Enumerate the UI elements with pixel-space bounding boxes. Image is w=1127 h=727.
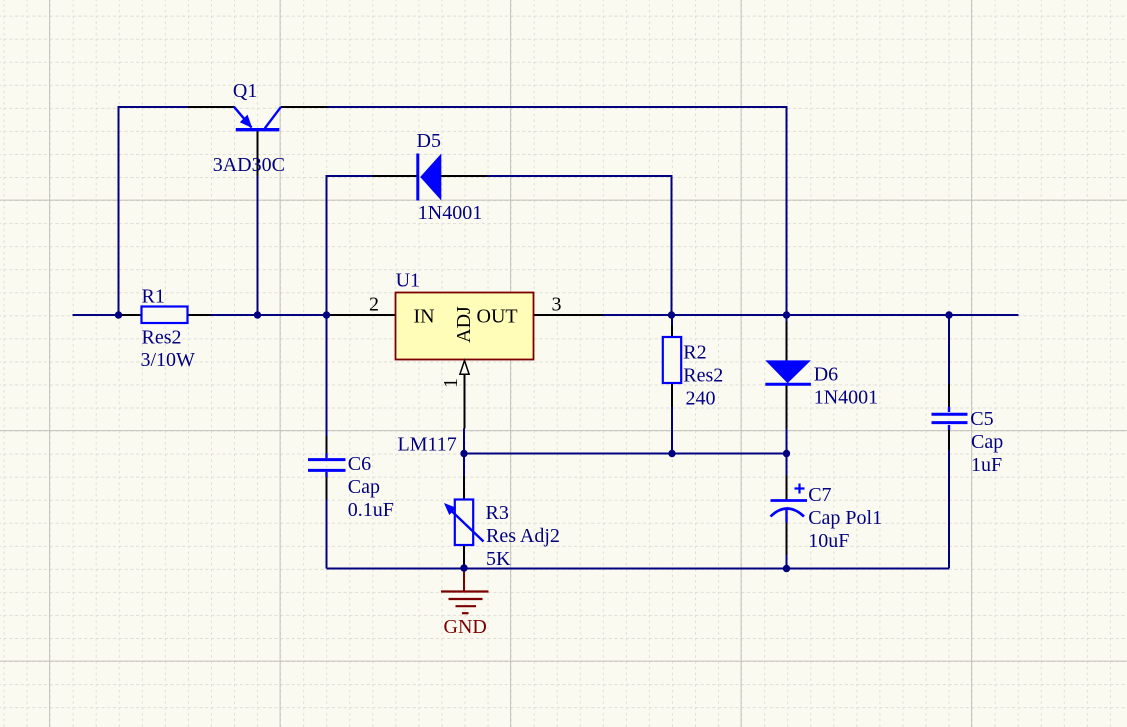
svg-text:1N4001: 1N4001 [418, 202, 482, 224]
svg-text:1uF: 1uF [971, 454, 1002, 476]
svg-text:ADJ: ADJ [453, 306, 475, 343]
junction R3 ground on bottom run [460, 564, 467, 571]
transistor Q1 symbol [234, 107, 281, 130]
svg-text:1N4001: 1N4001 [814, 387, 878, 409]
junction D5 riser on main [323, 311, 330, 318]
transistor Q1 pin emitter [188, 106, 235, 108]
junction main-riser left [115, 311, 122, 318]
svg-text:R3: R3 [486, 502, 509, 524]
svg-text:R2: R2 [683, 342, 706, 364]
resistor R3 adjustable [444, 477, 484, 568]
wire ADJ vertical [463, 429, 465, 478]
svg-text:3: 3 [552, 294, 562, 316]
junction D6 on ADJ row [783, 450, 790, 457]
diode D5 [373, 154, 488, 201]
wire Q1 collector top run and right riser [327, 107, 787, 315]
svg-text:1: 1 [440, 378, 462, 388]
capacitor C5 [932, 384, 968, 450]
junction C7 on bottom run [783, 565, 790, 572]
wire C5 lower riser [948, 449, 950, 569]
wire left riser to Q1 emitter [119, 107, 190, 315]
wire C7 top stub [786, 454, 788, 477]
svg-text:OUT: OUT [477, 306, 518, 328]
svg-text:IN: IN [414, 306, 435, 328]
wire D5 cathode to right riser [487, 176, 672, 315]
svg-text:LM117: LM117 [398, 434, 457, 456]
svg-text:Q1: Q1 [233, 80, 257, 102]
svg-text:D6: D6 [814, 364, 838, 386]
wire D6 bottom stub [786, 428, 788, 454]
wire bottom horizontal run [327, 568, 950, 570]
svg-text:Cap Pol1: Cap Pol1 [808, 507, 882, 529]
wire R2 top stub [671, 315, 673, 327]
svg-text:Res Adj2: Res Adj2 [486, 525, 560, 547]
wire main horizontal net segment right [534, 314, 1019, 316]
junction D5 right riser on main [668, 311, 675, 318]
svg-text:240: 240 [686, 388, 716, 410]
svg-text:Cap: Cap [348, 476, 380, 498]
ground [441, 569, 489, 614]
wire ADJ horizontal run [464, 453, 788, 455]
wire main horizontal net segment middle [188, 314, 396, 316]
wire R2 bottom stub [671, 407, 673, 454]
regulator U1 ADJ pin with triangle [460, 361, 469, 429]
wire C6 lower riser [326, 499, 328, 569]
svg-text:GND: GND [444, 616, 487, 638]
junction C5 riser on main [945, 311, 952, 318]
wire D5 anode riser [327, 176, 374, 315]
junction R2 on ADJ row [668, 450, 675, 457]
svg-text:Res2: Res2 [683, 365, 723, 387]
wire C7 bottom stub [786, 554, 788, 569]
wire C5 upper riser [948, 315, 950, 385]
junction collector riser on main [783, 311, 790, 318]
resistor R1 [119, 307, 211, 324]
transistor Q1 pin base [257, 130, 259, 176]
svg-text:0.1uF: 0.1uF [348, 499, 394, 521]
junction Q1 base on main [254, 311, 261, 318]
diode D6 [765, 322, 811, 429]
svg-text:3/10W: 3/10W [141, 349, 196, 371]
capacitor C6 [308, 436, 346, 500]
resistor R2 [663, 326, 681, 408]
svg-text:3AD30C: 3AD30C [213, 154, 285, 176]
wire main horizontal net segment left [73, 314, 142, 316]
svg-text:C6: C6 [348, 453, 371, 475]
capacitor C7 polarized [771, 475, 808, 555]
wire Q1 base down [257, 174, 259, 315]
transistor Q1 pin collector [281, 106, 328, 108]
wire C6 upper riser [326, 315, 328, 437]
svg-text:R1: R1 [142, 286, 165, 308]
svg-text:Res2: Res2 [142, 327, 182, 349]
svg-text:C7: C7 [808, 484, 831, 506]
svg-text:U1: U1 [396, 270, 420, 292]
svg-text:10uF: 10uF [808, 530, 849, 552]
svg-text:2: 2 [369, 294, 379, 316]
svg-text:C5: C5 [970, 408, 993, 430]
svg-text:5K: 5K [486, 548, 511, 570]
regulator U1 body [327, 293, 603, 360]
svg-text:D5: D5 [417, 130, 441, 152]
wire D6 top stub [786, 315, 788, 323]
junction ADJ row left [460, 450, 467, 457]
svg-text:Cap: Cap [971, 431, 1003, 453]
